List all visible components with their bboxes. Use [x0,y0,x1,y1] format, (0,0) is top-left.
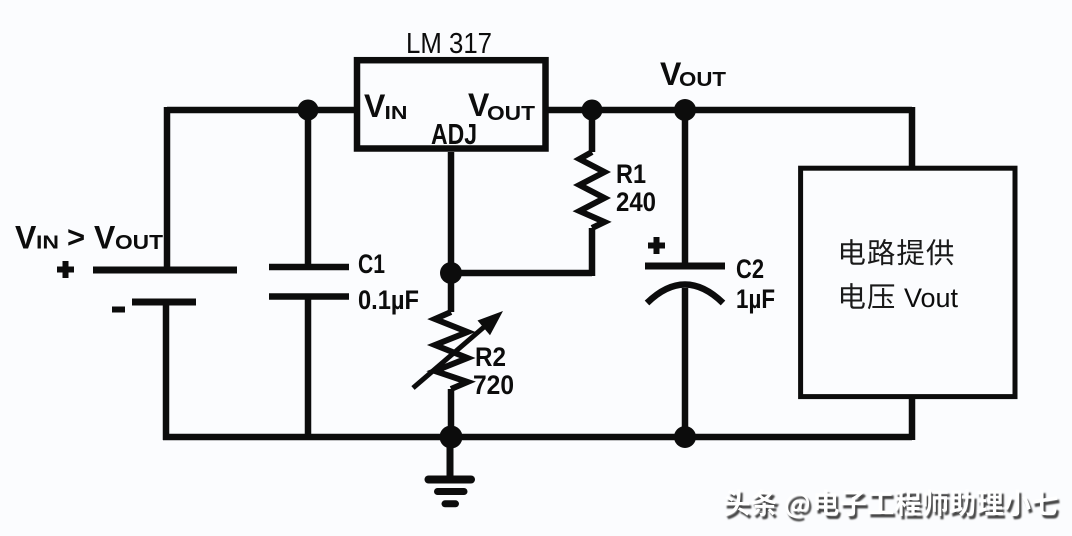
load box text line 2: voltage Vout [841,283,959,313]
junction: ground node on bottom rail [440,426,463,449]
ground symbol [429,437,472,504]
svg-text:C1: C1 [358,249,385,279]
battery + sign [57,261,74,278]
wire: R1 top lead from output rail [589,110,596,152]
wire: left vertical from battery - plate down to bottom rail [163,302,170,440]
svg-text:IN: IN [385,103,408,123]
svg-text:Vout: Vout [904,283,959,313]
watermark: toutiao author [724,489,1059,521]
wire: right drop from output rail into load box top [909,107,916,169]
load box text line 1: provides circuit [841,239,953,265]
wire: output rail from LM317 VOUT to right drop [545,107,912,114]
resistor R1 zigzag body [580,152,605,228]
svg-text:R2: R2 [475,342,506,372]
junction: R1 tap on output rail [582,100,603,121]
svg-text:ADJ: ADJ [431,119,477,151]
capacitor C2 plus sign [648,237,665,254]
capacitor C2 curved bottom plate [647,285,723,304]
svg-text:V: V [364,88,386,124]
wire: ADJ pin from LM317 down to adjust node [448,152,455,273]
svg-text:LM 317: LM 317 [406,28,492,60]
wire: C1 bottom plate down to bottom rail [305,296,312,437]
svg-text:C2: C2 [736,254,764,284]
junction: adjust node [440,262,462,284]
junction: C1 tap on input rail [298,100,319,121]
svg-text:V: V [94,220,116,256]
load box outline [801,168,1015,396]
svg-text:R1: R1 [616,159,646,189]
battery B1 negative plate [132,299,196,306]
wire: C2 branch from VOUT node down to C2 top plate [682,110,689,266]
svg-text:OUT: OUT [115,232,163,254]
wire: R1 bottom lead down to adjust wire [589,228,596,276]
svg-text:>: > [67,220,85,255]
label: VIN > VOUT [15,220,163,256]
wire: C2 bottom down to bottom rail [682,288,689,437]
capacitor C1 bottom plate [269,293,349,300]
variable resistor R2 zigzag body [435,312,468,389]
node label VOUT [660,56,726,92]
capacitor C2 top plate [645,263,725,270]
wire: bottom ground rail [163,434,912,441]
svg-text:1µF: 1µF [736,284,775,314]
wire: left vertical from top rail down to battery + plate [164,107,171,270]
wire: top input rail from battery to LM317 VIN [167,107,358,114]
junction: C2 return on bottom rail [674,426,696,448]
svg-text:V: V [15,220,37,256]
wire: adjust node horizontal to R1 bottom [451,270,592,277]
regulator U1 LM317 body [357,60,546,148]
capacitor C1 top plate [269,264,349,271]
junction: VOUT node / C2 tap [674,99,696,121]
svg-text:240: 240 [616,187,656,217]
wire: R2 bottom lead down to bottom rail [448,389,455,437]
wire: R2 top lead from adjust node [448,273,455,312]
svg-text:OUT: OUT [487,103,535,125]
wire: C1 branch from top rail down to C1 top plate [305,110,312,267]
svg-text:OUT: OUT [679,69,726,91]
battery B1 positive plate [93,267,237,274]
wire: load box bottom down to bottom rail [909,396,916,440]
svg-text:IN: IN [36,233,59,253]
R2 adjustment arrow head [478,311,504,335]
svg-text:0.1µF: 0.1µF [358,285,419,315]
svg-text:720: 720 [473,370,514,400]
R2 adjustment arrow shaft [413,327,484,388]
battery - sign [112,307,125,313]
